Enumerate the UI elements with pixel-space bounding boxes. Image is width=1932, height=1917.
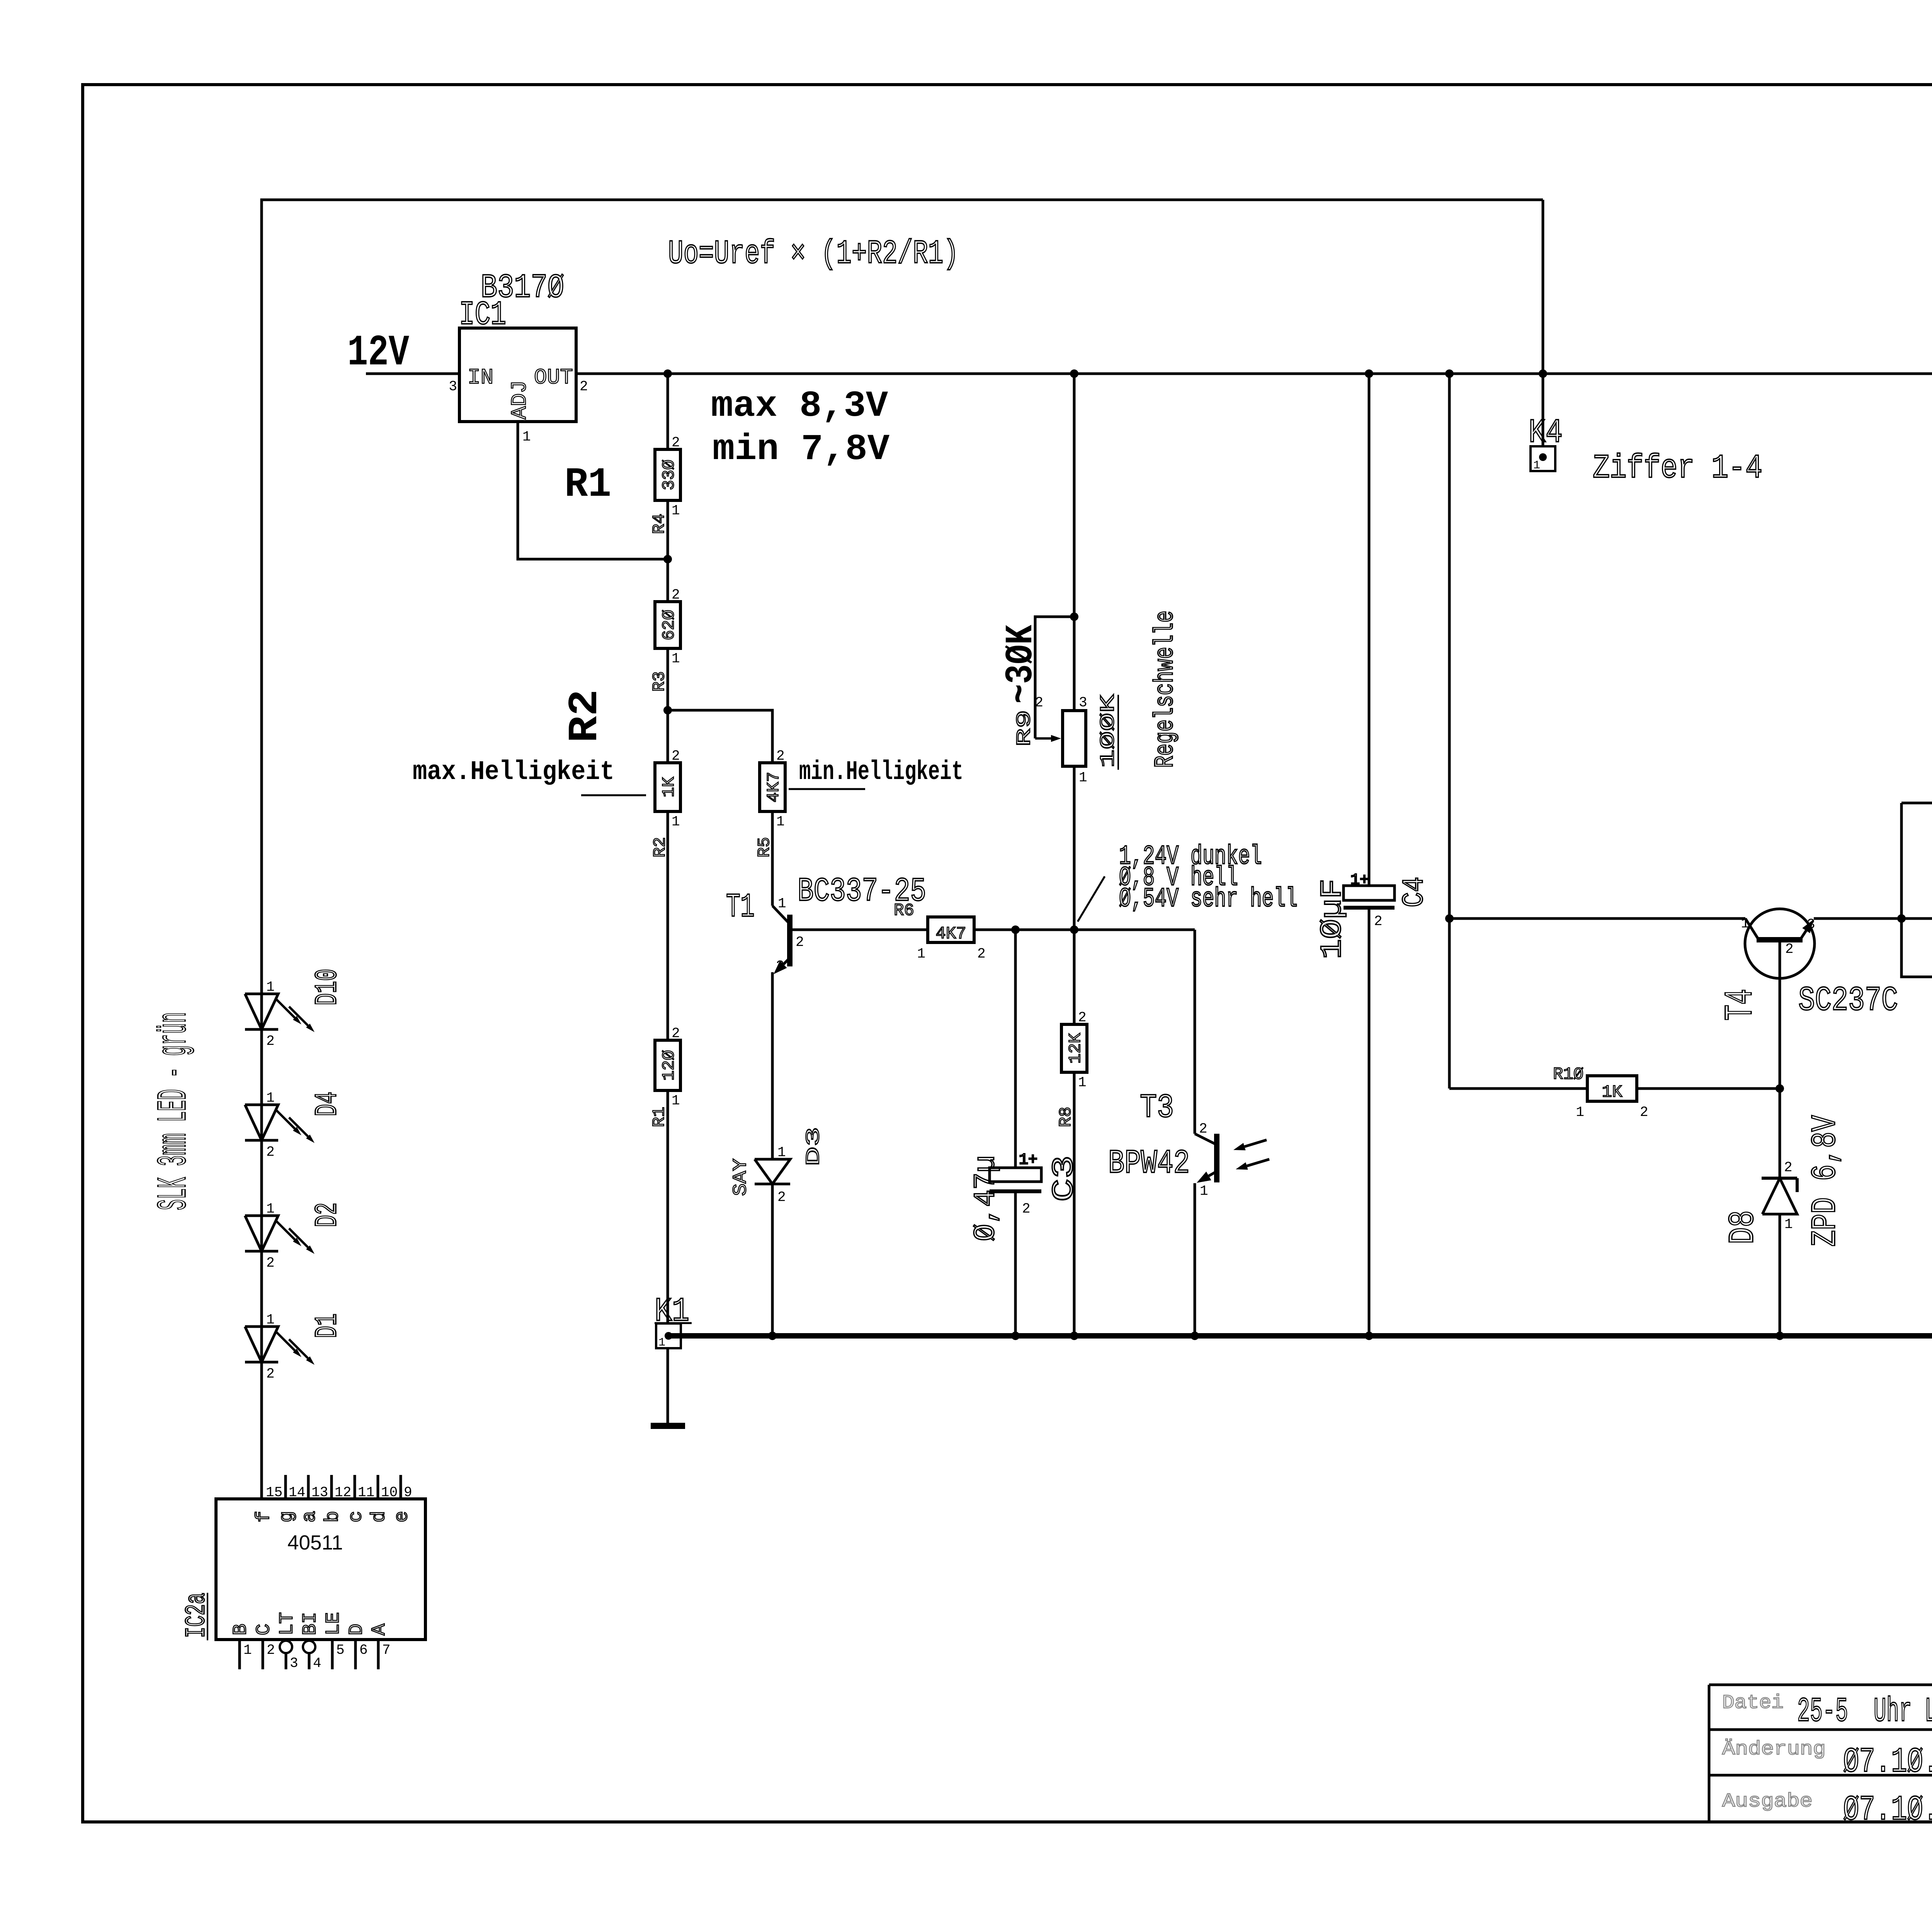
svg-text:2: 2 xyxy=(1022,1201,1031,1217)
svg-text:2: 2 xyxy=(266,1255,275,1271)
svg-text:3: 3 xyxy=(449,379,457,395)
svg-text:D: D xyxy=(346,1624,368,1635)
svg-text:12V: 12V xyxy=(347,328,410,378)
svg-text:1: 1 xyxy=(1079,770,1087,786)
svg-text:1+: 1+ xyxy=(1019,1152,1037,1169)
svg-text:A: A xyxy=(369,1624,391,1635)
svg-text:1K: 1K xyxy=(660,777,679,797)
svg-text:d: d xyxy=(368,1511,390,1522)
svg-text:2: 2 xyxy=(776,748,785,764)
svg-text:~3ØK: ~3ØK xyxy=(1000,624,1043,704)
svg-text:T3: T3 xyxy=(1140,1089,1174,1127)
svg-text:3: 3 xyxy=(1079,695,1087,711)
svg-text:max 8,3V: max 8,3V xyxy=(711,385,888,427)
svg-text:2: 2 xyxy=(266,1033,275,1049)
svg-text:2: 2 xyxy=(672,748,680,764)
svg-text:Ausgabe: Ausgabe xyxy=(1722,1791,1813,1813)
svg-text:T4: T4 xyxy=(1718,989,1763,1021)
svg-text:2: 2 xyxy=(1035,695,1043,711)
svg-text:R1: R1 xyxy=(650,1107,669,1127)
svg-text:b: b xyxy=(322,1511,344,1522)
svg-text:3: 3 xyxy=(776,958,784,974)
svg-text:LE: LE xyxy=(323,1612,345,1635)
svg-text:B317Ø: B317Ø xyxy=(481,269,564,307)
svg-text:BPW42: BPW42 xyxy=(1108,1145,1190,1182)
svg-text:2: 2 xyxy=(977,946,986,962)
svg-text:Ø,54V sehr hell: Ø,54V sehr hell xyxy=(1119,884,1298,915)
svg-text:min 7,8V: min 7,8V xyxy=(713,429,889,470)
svg-text:K4: K4 xyxy=(1529,414,1563,452)
svg-text:2: 2 xyxy=(1640,1104,1648,1120)
svg-text:D10: D10 xyxy=(310,969,345,1005)
svg-text:15: 15 xyxy=(266,1485,282,1500)
svg-text:D8: D8 xyxy=(1723,1210,1764,1244)
svg-text:1: 1 xyxy=(1200,1183,1208,1199)
svg-text:D2: D2 xyxy=(310,1203,345,1227)
svg-text:2: 2 xyxy=(796,934,804,950)
svg-text:2: 2 xyxy=(1374,913,1383,929)
svg-text:a: a xyxy=(299,1511,321,1522)
svg-text:D3: D3 xyxy=(803,1127,825,1166)
svg-text:3: 3 xyxy=(1807,917,1815,932)
svg-text:Uo=Uref × (1+R2/R1): Uo=Uref × (1+R2/R1) xyxy=(668,235,959,273)
svg-text:Regelschwelle: Regelschwelle xyxy=(1150,611,1181,768)
svg-text:62Ø: 62Ø xyxy=(660,610,679,640)
svg-text:13: 13 xyxy=(311,1485,328,1500)
svg-text:2: 2 xyxy=(672,587,680,603)
svg-text:1: 1 xyxy=(776,814,785,830)
svg-text:12Ø: 12Ø xyxy=(660,1050,679,1080)
svg-text:2: 2 xyxy=(1785,941,1794,957)
svg-text:1: 1 xyxy=(1784,1216,1793,1232)
svg-text:9: 9 xyxy=(404,1485,412,1500)
svg-text:14: 14 xyxy=(289,1485,305,1500)
svg-text:1: 1 xyxy=(266,979,275,995)
svg-text:1: 1 xyxy=(777,1145,786,1160)
svg-text:R4: R4 xyxy=(650,514,669,534)
svg-text:K1: K1 xyxy=(655,1293,689,1330)
svg-text:g: g xyxy=(276,1511,298,1522)
svg-text:2: 2 xyxy=(1199,1121,1207,1137)
svg-text:B: B xyxy=(230,1624,252,1635)
svg-text:2: 2 xyxy=(1078,1010,1087,1026)
svg-text:Ziffer 1-4: Ziffer 1-4 xyxy=(1593,449,1762,487)
svg-text:1: 1 xyxy=(522,429,531,445)
svg-text:Datei: Datei xyxy=(1722,1692,1784,1714)
svg-text:1: 1 xyxy=(672,651,680,667)
svg-text:SAY: SAY xyxy=(730,1158,752,1196)
svg-text:R2: R2 xyxy=(562,689,609,743)
svg-text:Ø,47µ: Ø,47µ xyxy=(969,1155,1003,1241)
svg-text:2: 2 xyxy=(266,1144,275,1160)
svg-text:40511: 40511 xyxy=(287,1531,343,1554)
svg-text:4K7: 4K7 xyxy=(764,772,784,802)
svg-text:3: 3 xyxy=(290,1655,298,1671)
svg-text:2: 2 xyxy=(580,379,588,395)
svg-text:1: 1 xyxy=(1533,459,1540,472)
svg-text:D4: D4 xyxy=(310,1092,345,1116)
svg-text:1: 1 xyxy=(658,1336,665,1349)
svg-text:2: 2 xyxy=(672,435,680,451)
svg-text:1: 1 xyxy=(778,896,786,912)
svg-text:2: 2 xyxy=(672,1026,680,1041)
svg-text:ZPD 6,8V: ZPD 6,8V xyxy=(1806,1115,1845,1247)
svg-text:Änderung: Änderung xyxy=(1722,1738,1826,1761)
svg-text:c: c xyxy=(345,1511,367,1522)
svg-text:R1: R1 xyxy=(565,461,611,509)
svg-text:e: e xyxy=(391,1511,413,1522)
svg-text:1: 1 xyxy=(672,1093,680,1109)
svg-text:1: 1 xyxy=(1741,916,1749,932)
svg-text:1+: 1+ xyxy=(1350,872,1369,889)
svg-text:C3: C3 xyxy=(1048,1155,1082,1202)
svg-text:2: 2 xyxy=(267,1642,275,1658)
svg-text:1: 1 xyxy=(917,946,925,962)
svg-text:Ø7.1Ø.2Ø: Ø7.1Ø.2Ø xyxy=(1843,1791,1932,1830)
svg-text:R5: R5 xyxy=(755,837,774,857)
svg-text:T1: T1 xyxy=(726,888,755,926)
svg-text:2: 2 xyxy=(266,1366,275,1382)
svg-text:LT: LT xyxy=(276,1612,298,1635)
svg-text:11: 11 xyxy=(358,1485,374,1500)
svg-text:1ØµF: 1ØµF xyxy=(1316,879,1350,959)
svg-text:4K7: 4K7 xyxy=(935,924,966,944)
svg-text:IN: IN xyxy=(468,365,493,390)
svg-text:4: 4 xyxy=(313,1655,321,1671)
svg-text:5: 5 xyxy=(336,1642,345,1658)
svg-text:1: 1 xyxy=(266,1090,275,1106)
svg-text:R6: R6 xyxy=(894,901,914,920)
svg-text:f: f xyxy=(253,1511,275,1522)
svg-text:max.Helligkeit: max.Helligkeit xyxy=(413,757,614,788)
svg-text:12K: 12K xyxy=(1066,1033,1085,1064)
svg-text:SLK 3mm LED - grün: SLK 3mm LED - grün xyxy=(151,1012,198,1210)
svg-text:OUT: OUT xyxy=(534,365,573,390)
svg-text:12: 12 xyxy=(335,1485,351,1500)
svg-text:2: 2 xyxy=(777,1189,786,1205)
svg-text:R8: R8 xyxy=(1056,1107,1076,1127)
svg-text:1K: 1K xyxy=(1602,1083,1622,1102)
svg-text:10: 10 xyxy=(381,1485,398,1500)
svg-text:min.Helligkeit: min.Helligkeit xyxy=(799,757,963,788)
svg-text:Ø7.1Ø.2Ø: Ø7.1Ø.2Ø xyxy=(1843,1743,1932,1782)
svg-text:1: 1 xyxy=(672,503,680,519)
svg-text:7: 7 xyxy=(382,1642,391,1658)
svg-text:C4: C4 xyxy=(1398,877,1432,907)
svg-text:1: 1 xyxy=(266,1312,275,1328)
svg-text:BI: BI xyxy=(299,1612,321,1635)
svg-text:1: 1 xyxy=(1576,1104,1584,1120)
svg-text:1: 1 xyxy=(243,1642,252,1658)
svg-text:25-5 Uhr Linearregler.T3ØØ1: 25-5 Uhr Linearregler.T3ØØ1 xyxy=(1797,1693,1932,1731)
svg-text:D1: D1 xyxy=(310,1313,345,1338)
svg-text:R2: R2 xyxy=(651,837,670,857)
svg-text:6: 6 xyxy=(359,1642,368,1658)
svg-text:SC237C: SC237C xyxy=(1798,982,1898,1020)
svg-text:1: 1 xyxy=(266,1201,275,1217)
svg-text:R3: R3 xyxy=(650,671,669,692)
svg-text:33Ø: 33Ø xyxy=(660,459,679,490)
svg-text:R1Ø: R1Ø xyxy=(1553,1065,1583,1084)
svg-text:ADJ: ADJ xyxy=(507,380,532,419)
svg-text:R9: R9 xyxy=(1013,710,1036,747)
svg-text:2: 2 xyxy=(1784,1160,1793,1175)
svg-text:1ØØK: 1ØØK xyxy=(1097,694,1120,768)
svg-text:C: C xyxy=(253,1624,275,1635)
svg-text:1: 1 xyxy=(1078,1075,1087,1090)
svg-text:1: 1 xyxy=(672,814,680,830)
